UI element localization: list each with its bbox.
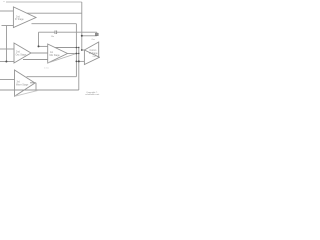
node A junction dot: [5, 61, 7, 63]
wire U5 output stub: [82, 49, 85, 51]
wire vertical V385: [38, 32, 40, 46]
svg-text:Mix Stage: Mix Stage: [50, 54, 61, 57]
node G junction dot: [81, 49, 83, 51]
wire top feedback H1: [6, 1, 82, 3]
wire input 3: [0, 48, 14, 50]
svg-text:IF Stage: IF Stage: [89, 52, 98, 55]
wire U4 output: [30, 82, 36, 84]
node D junction dot: [78, 47, 79, 48]
wire input 2: [2, 25, 14, 27]
wire vertical V79: [78, 48, 80, 91]
svg-text:xx: xx: [3, 1, 5, 3]
op-amp U1: [13, 7, 36, 28]
op-amp U5 left-pointing: [84, 42, 98, 58]
svg-text:10n: 10n: [51, 36, 54, 38]
node E junction dot: [78, 53, 79, 54]
wire U3 output: [68, 53, 79, 55]
node J junction dot: [76, 47, 78, 49]
wire input 1: [0, 10, 13, 12]
capacitor C2 plates: [95, 32, 99, 34]
wire diagonal D1: [14, 90, 38, 96]
node C junction dot: [76, 53, 78, 55]
wire vertical V815 right: [81, 2, 83, 50]
op-amp U3: [48, 44, 68, 63]
svg-text:Comm: Comm: [90, 50, 97, 52]
wire bottom bus: [0, 89, 79, 91]
wire C2 bottom: [82, 35, 97, 37]
wire U3 input c: [23, 59, 48, 61]
op-amp U2: [14, 43, 31, 63]
wire input 5: [0, 79, 15, 81]
wire diagonal D2: [48, 54, 77, 64]
svg-text:Mixer Stage: Mixer Stage: [16, 84, 29, 87]
svg-text:to mix: to mix: [44, 67, 49, 70]
wire U3 top tap: [55, 47, 79, 49]
node H junction dot: [76, 61, 78, 63]
svg-text:Osc: Osc: [92, 39, 96, 41]
svg-text:IF Stage: IF Stage: [15, 18, 24, 21]
capacitor C1 plates: [55, 31, 57, 35]
svg-text:Out: Out: [93, 55, 97, 58]
wire H5 mid: [32, 23, 77, 25]
svg-text:schematics.net: schematics.net: [85, 93, 99, 96]
wire vertical V65 left: [6, 26, 8, 62]
node B junction dot: [38, 45, 40, 47]
wire H77 from U4 top tap: [27, 76, 77, 78]
wire capacitor row right: [57, 31, 97, 33]
svg-text:Osc Stage: Osc Stage: [16, 53, 27, 56]
wire capacitor row left: [39, 31, 55, 33]
node F junction dot: [81, 35, 83, 37]
wire vertical V765: [75, 24, 77, 77]
wire vertical V36: [35, 83, 37, 90]
op-amp U4: [15, 70, 36, 96]
wire U2 output to U3: [31, 52, 48, 54]
capacitor C2 right stubs: [96, 32, 98, 36]
wire input 4: [0, 61, 14, 63]
wire U6 input: [76, 60, 84, 62]
op-amp U6 right-pointing: [84, 50, 99, 65]
svg-text:1st: 1st: [50, 51, 53, 54]
wire U3 input a: [39, 45, 48, 47]
wire H3 tap from U1 top edge: [27, 12, 82, 14]
node I junction dot: [78, 60, 80, 62]
